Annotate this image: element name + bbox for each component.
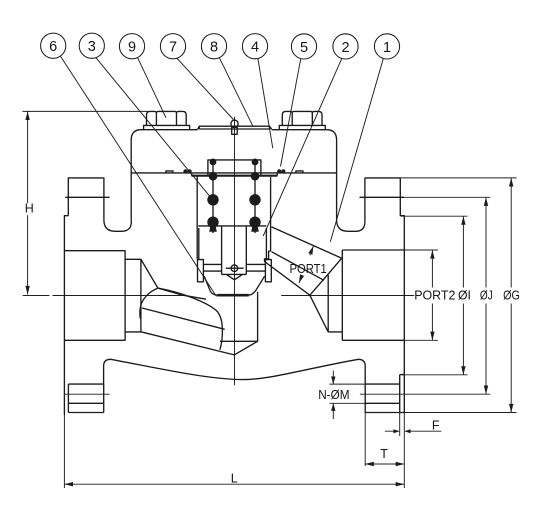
- leader 6: [61, 56, 217, 296]
- T dimension line: [365, 463, 404, 465]
- PORT2 dimension line: [431, 250, 433, 340]
- svg-text:H: H: [25, 202, 34, 216]
- gasket step verticals: [192, 173, 278, 176]
- svg-text:1: 1: [383, 40, 391, 56]
- body underside: [104, 359, 366, 384]
- F dimension line: [385, 430, 442, 432]
- leader 2: [263, 58, 342, 236]
- right hub block: [342, 250, 404, 340]
- channel lower: [265, 251, 310, 295]
- OJ top ref: [404, 196, 490, 198]
- leader 1: [330, 58, 383, 242]
- L extension left: [63, 415, 65, 488]
- OG arrows: [509, 178, 513, 187]
- balloon 3: [79, 33, 104, 58]
- balloon 7: [160, 34, 185, 59]
- svg-text:4: 4: [251, 40, 259, 56]
- spring coil sections: [207, 159, 260, 232]
- T extension: [364, 413, 366, 467]
- balloon 2: [333, 34, 358, 59]
- seat ring right: [265, 260, 271, 282]
- bolt right head: [282, 111, 322, 125]
- OJ arrows: [484, 197, 488, 206]
- piston flange band: [203, 264, 265, 271]
- svg-text:8: 8: [210, 40, 218, 56]
- vertical centerline: [234, 117, 236, 386]
- leader 5: [281, 58, 301, 166]
- svg-text:ØG: ØG: [503, 288, 520, 302]
- svg-text:6: 6: [49, 39, 57, 55]
- OI arrows: [461, 216, 465, 225]
- vertex to centerline: [158, 288, 183, 295]
- PORT2 bottom ref: [404, 339, 438, 341]
- PORT1 arrows: [308, 246, 313, 255]
- OI top ref: [401, 215, 468, 217]
- piston stems: [221, 226, 223, 274]
- disc face ellipse right branch: [158, 288, 223, 350]
- horizontal flow centerline: [23, 295, 414, 297]
- N-OM dimension line: [332, 371, 334, 420]
- balloon 4: [242, 34, 267, 59]
- H reference top line: [22, 110, 148, 112]
- disc seal face: [218, 294, 249, 296]
- cover plate: [198, 126, 272, 129]
- leader 9: [137, 57, 166, 118]
- svg-text:PORT1: PORT1: [290, 262, 327, 276]
- L extension right: [403, 413, 405, 489]
- bolt CL right / OJ bottom ref: [360, 393, 490, 395]
- H arrows: [25, 111, 29, 120]
- bolt right washer: [279, 125, 325, 129]
- left bore cone upper: [141, 259, 158, 288]
- channel end arc: [310, 258, 342, 295]
- svg-text:2: 2: [341, 40, 349, 56]
- OG top ref: [400, 177, 516, 179]
- OJ dimension line: [485, 197, 487, 394]
- right raised face back: [400, 375, 405, 414]
- right bottom tab rows: [365, 384, 404, 412]
- bonnet joint line: [131, 172, 336, 174]
- bonnet outline: [131, 130, 336, 220]
- gasket beads: [183, 169, 285, 173]
- svg-text:F: F: [432, 419, 440, 433]
- L dimension line: [64, 483, 404, 485]
- OI bottom ref: [402, 374, 468, 376]
- left counterbore: [125, 259, 141, 332]
- spring retainer: [208, 160, 261, 176]
- L arrows: [64, 482, 73, 486]
- body guide walls: [196, 176, 198, 259]
- right flange: tab: [365, 178, 404, 413]
- disc lower body: [220, 292, 258, 355]
- F arrows: [393, 429, 399, 433]
- internal shoulder: [192, 175, 278, 177]
- OI dimension line: [462, 216, 464, 375]
- right U-neck: [337, 220, 365, 231]
- gasket step bumps: [166, 171, 303, 173]
- spring seat line on piston: [198, 225, 266, 227]
- balloon 6: [41, 33, 66, 58]
- OG bottom ref: [404, 412, 516, 414]
- leader 4: [258, 59, 273, 149]
- channel middle: [272, 252, 325, 281]
- N-OM extension rows: [330, 384, 366, 403]
- bolt left washer: [144, 125, 190, 129]
- svg-text:T: T: [380, 447, 388, 461]
- spring coil lines: [212, 159, 214, 233]
- leader 7: [177, 58, 234, 120]
- pivot mark: [231, 265, 238, 272]
- disc face ellipse left branch: [140, 288, 158, 318]
- balloon 1: [374, 34, 399, 59]
- svg-text:9: 9: [128, 40, 136, 56]
- left U-neck: [104, 220, 131, 231]
- channel upper: [272, 227, 342, 258]
- svg-text:L: L: [231, 471, 238, 485]
- N-OM arrows: [331, 377, 335, 385]
- piston skirt walls: [198, 228, 200, 259]
- PORT2 top ref: [404, 249, 438, 251]
- left raised-face jog: [64, 216, 68, 415]
- svg-text:ØJ: ØJ: [480, 288, 493, 302]
- stem bottom chevron: [222, 274, 247, 279]
- piston taper right: [248, 276, 264, 295]
- svg-text:5: 5: [300, 40, 308, 56]
- T arrows: [365, 462, 374, 466]
- svg-text:PORT2: PORT2: [414, 288, 455, 302]
- left bottom tab / bolt hole: [68, 384, 103, 412]
- OG dimension line: [510, 178, 512, 413]
- balloon 8: [201, 34, 226, 59]
- seat ring left: [198, 260, 204, 282]
- F extension: [399, 414, 401, 436]
- disc side edge: [142, 308, 225, 329]
- bolt left head: [147, 111, 187, 125]
- PORT2 arrows: [430, 250, 434, 259]
- right bore cone lower: [310, 295, 328, 332]
- balloon 5: [291, 34, 316, 59]
- svg-text:7: 7: [169, 40, 177, 56]
- H dimension line: [27, 111, 29, 294]
- piston taper left: [204, 276, 218, 295]
- left bore cone lower: [141, 332, 234, 355]
- right counterbore: [328, 275, 342, 332]
- left flange: tab top: [68, 178, 104, 220]
- left raised face line: [65, 196, 109, 198]
- svg-text:3: 3: [88, 39, 96, 55]
- leader 8: [220, 58, 253, 126]
- svg-text:ØI: ØI: [458, 288, 471, 302]
- leader 3: [96, 57, 211, 198]
- vent pin: [231, 120, 238, 127]
- left hub block: [64, 251, 125, 341]
- bolt CL left: [65, 393, 110, 395]
- PORT1 dimension line: [299, 246, 313, 283]
- disc upper edge: [183, 295, 206, 299]
- balloon 9: [119, 34, 144, 59]
- right tab top: [365, 177, 400, 179]
- right raised face line: [360, 196, 405, 198]
- svg-text:N-ØM: N-ØM: [318, 388, 349, 402]
